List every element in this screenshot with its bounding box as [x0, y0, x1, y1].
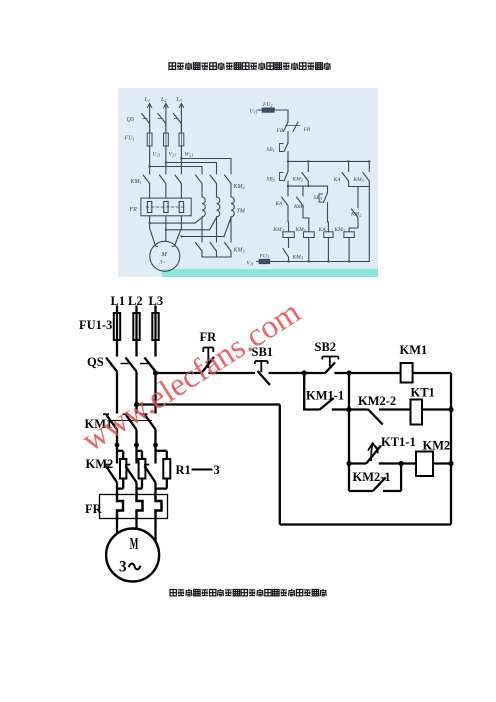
svg-text:KM2: KM2 — [350, 212, 361, 218]
svg-text:KM2: KM2 — [273, 227, 284, 233]
svg-text:KM3: KM3 — [233, 248, 245, 254]
svg-text:W21: W21 — [185, 152, 194, 158]
svg-text:KA: KA — [318, 227, 327, 233]
svg-text:L3: L3 — [149, 294, 164, 308]
svg-text:FR: FR — [276, 128, 284, 134]
svg-text:KM2: KM2 — [423, 439, 451, 453]
svg-text:KM2-1: KM2-1 — [353, 470, 391, 484]
svg-text:KM3: KM3 — [353, 177, 364, 183]
svg-text:KT1: KT1 — [411, 386, 435, 400]
svg-text:L2: L2 — [128, 294, 143, 308]
svg-text:FU1-3: FU1-3 — [79, 318, 112, 332]
svg-text:FU2: FU2 — [262, 102, 272, 108]
svg-text:QS: QS — [87, 355, 104, 369]
svg-text:SB2: SB2 — [267, 177, 275, 183]
svg-text:KM3: KM3 — [334, 227, 345, 233]
svg-text:V21: V21 — [169, 152, 177, 158]
svg-text:KT1-1: KT1-1 — [381, 435, 416, 449]
svg-text:R1: R1 — [176, 463, 191, 477]
svg-text:U11: U11 — [250, 109, 258, 115]
svg-text:KM2-2: KM2-2 — [358, 394, 396, 408]
svg-text:3: 3 — [214, 463, 220, 477]
svg-text:3: 3 — [119, 558, 127, 575]
svg-text:L2: L2 — [160, 97, 166, 103]
svg-text:L1: L1 — [111, 294, 126, 308]
svg-text:KM1: KM1 — [130, 179, 142, 185]
svg-text:FR: FR — [85, 502, 103, 516]
svg-text:SB1: SB1 — [267, 147, 275, 153]
svg-text:V11: V11 — [247, 261, 254, 267]
svg-text:SB2: SB2 — [315, 340, 337, 354]
svg-text:3~: 3~ — [159, 260, 166, 266]
svg-text:KM2: KM2 — [292, 177, 303, 183]
svg-text:KA: KA — [275, 201, 284, 207]
svg-text:KM1: KM1 — [400, 343, 428, 357]
svg-text:KM1: KM1 — [295, 227, 306, 233]
svg-text:FR: FR — [129, 207, 138, 213]
svg-text:KM2: KM2 — [233, 184, 245, 190]
svg-text:KM1-1: KM1-1 — [306, 389, 344, 403]
svg-text:U21: U21 — [153, 152, 161, 158]
svg-text:QS: QS — [127, 117, 134, 123]
svg-text:KM1: KM1 — [293, 204, 304, 210]
svg-text:SB3: SB3 — [314, 195, 322, 201]
svg-text:FU3: FU3 — [259, 254, 269, 260]
svg-text:KM2: KM2 — [86, 457, 114, 471]
svg-text:FR: FR — [303, 127, 311, 133]
svg-text:FU1: FU1 — [124, 136, 135, 142]
svg-text:M: M — [161, 251, 168, 258]
svg-text:KM3: KM3 — [292, 255, 303, 261]
svg-text:L1: L1 — [144, 97, 150, 103]
svg-text:KA: KA — [333, 177, 342, 183]
svg-text:M: M — [130, 534, 139, 553]
svg-text:L3: L3 — [176, 97, 182, 103]
svg-text:TM: TM — [237, 209, 246, 215]
